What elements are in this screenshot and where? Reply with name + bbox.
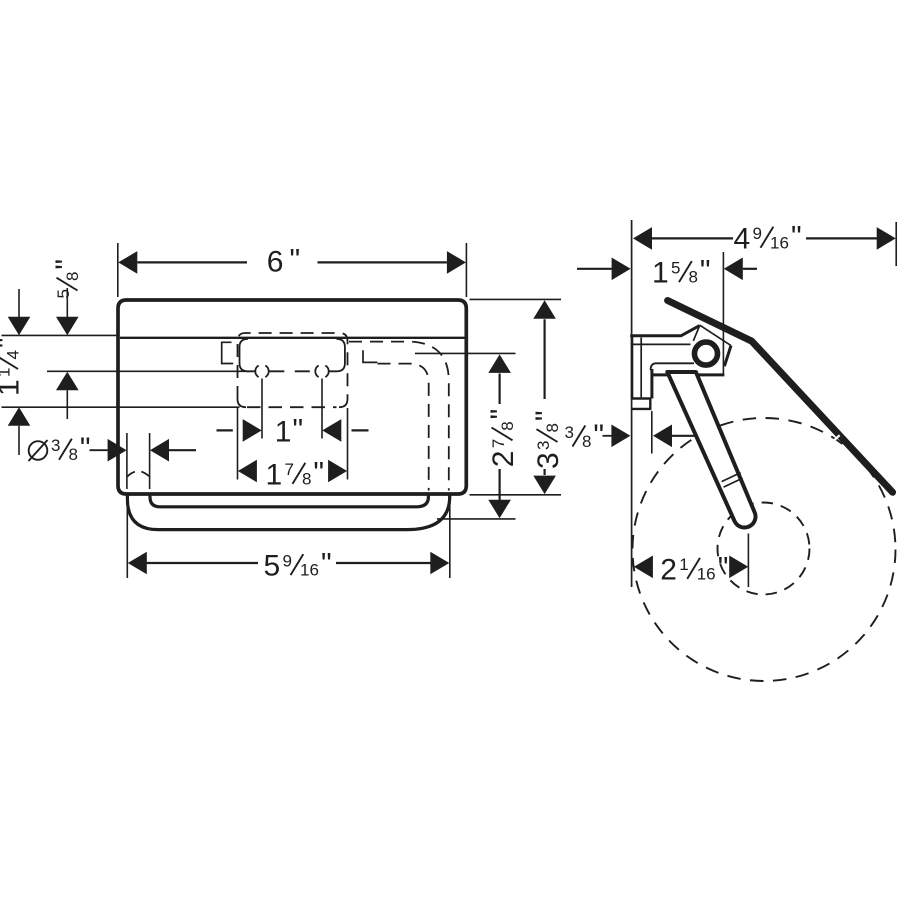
dim 2 1/16: extension line: [747, 534, 749, 588]
svg-text:7: 7: [489, 439, 508, 448]
side view: wall reference line: [631, 220, 633, 587]
svg-text:9: 9: [753, 224, 762, 243]
dim 3 3/8: line, arrows: [533, 300, 556, 319]
dim 5 9/16 inch (bar width): extension lines: [126, 497, 128, 578]
svg-text:": ": [290, 244, 301, 277]
svg-text:": ": [700, 255, 711, 288]
plate bottom hidden edge: [247, 406, 337, 408]
svg-text:6: 6: [267, 246, 284, 279]
dim 3 3/8 inch (body height): extension lines: [470, 298, 562, 300]
svg-text:1: 1: [0, 368, 13, 377]
screw hole left: [255, 366, 258, 378]
dim 3/8: extension line: [651, 411, 653, 454]
screw hole centre line: [47, 370, 250, 372]
front view: holder body outline: [118, 300, 466, 494]
dim dia 3/8: leader and arrows: [90, 449, 108, 451]
hidden centre line between holes: [269, 370, 314, 372]
wall bracket left edge: [631, 336, 634, 399]
svg-text:3: 3: [565, 423, 574, 442]
svg-text:8: 8: [582, 432, 591, 451]
screw hole right: [315, 366, 318, 378]
roll bar outer outline: [127, 493, 449, 530]
svg-text:2: 2: [487, 451, 520, 468]
hinge block left edge: [693, 325, 700, 341]
svg-text:3: 3: [534, 441, 553, 450]
dim dia 3/8 inch rod: extension lines: [126, 433, 128, 489]
svg-text:5: 5: [671, 258, 680, 277]
cover flap (open position): [668, 301, 893, 493]
plate bottom right corner: [339, 399, 348, 407]
svg-text:1: 1: [266, 458, 283, 491]
roll core (dashed circle): [718, 503, 810, 595]
dim 2 7/8: rotated label: [485, 409, 520, 468]
svg-text:8: 8: [689, 268, 698, 287]
dim 1 inch (hole spacing): extension lines: [261, 379, 263, 439]
wall bracket inner horizontal: [633, 343, 691, 345]
svg-text:8: 8: [498, 421, 517, 430]
hinge block top edge: [700, 325, 731, 345]
dim 1 1/4 inch: arrows and stems: [18, 289, 20, 317]
wall bracket inner vertical: [640, 338, 642, 398]
svg-text:3: 3: [532, 452, 565, 469]
cover hidden outline outer: [349, 342, 449, 491]
mounting plate solid outline right: [329, 339, 345, 371]
svg-text:1: 1: [275, 415, 292, 448]
roll bar inner outline: [150, 493, 428, 507]
svg-text:5: 5: [54, 289, 73, 298]
dim 1 inch: line, arrows, label: [217, 429, 233, 431]
svg-text:1: 1: [679, 555, 688, 574]
diameter symbol: [29, 441, 48, 460]
svg-text:": ": [313, 456, 324, 489]
hinge block right edge: [724, 346, 731, 367]
dim 2 7/8: line, arrows: [488, 354, 511, 373]
svg-text:4: 4: [4, 350, 23, 359]
svg-text:1: 1: [652, 257, 669, 290]
dimension reference line A (shelf top): [2, 334, 118, 336]
svg-text:": ": [485, 409, 518, 420]
rod hidden bend (dashed arc): [127, 471, 149, 476]
arm seam lines: [722, 473, 741, 482]
dim 1 7/8 inch: arrows and label: [238, 460, 257, 483]
svg-text:9: 9: [283, 551, 292, 570]
svg-text:2: 2: [660, 553, 677, 586]
cover hidden outline inner: [378, 364, 429, 491]
dimension reference line C (plate bottom): [2, 406, 240, 408]
dim 5/8 inch: rotated label: [50, 259, 83, 299]
svg-text:16: 16: [770, 233, 789, 252]
wall bracket foot: [631, 399, 650, 409]
shelf front edge line: [120, 337, 465, 339]
dim 5/8 inch: arrows and stems: [66, 288, 68, 317]
svg-text:": ": [293, 413, 304, 446]
svg-text:8: 8: [543, 423, 562, 432]
dim 1 1/4 inch: rotated label: [0, 337, 26, 396]
dim 2 7/8 inch: extension lines: [415, 352, 516, 354]
svg-text:": ": [0, 337, 24, 348]
svg-text:16: 16: [300, 561, 319, 580]
dim 5 9/16: line, arrows, label: [147, 562, 259, 564]
wall bracket top edge: [630, 326, 699, 336]
ledge-foot connector: [650, 369, 653, 399]
mounting plate solid outline left: [240, 339, 256, 371]
svg-text:5: 5: [264, 550, 281, 583]
svg-text:16: 16: [697, 564, 716, 583]
svg-text:": ": [593, 419, 604, 452]
hinge pin bracket right: [363, 350, 377, 362]
dim 1 5/8: stems and arrows: [577, 268, 612, 270]
dim 1 5/8: extension line: [722, 252, 724, 375]
svg-text:1: 1: [0, 379, 26, 396]
roll holder arm: [667, 372, 755, 528]
dim 2 1/16: arrows and label: [634, 556, 653, 579]
dim 6 inch: line and arrows: [137, 261, 247, 263]
hinge pivot ring: [695, 342, 718, 365]
ledge top edge: [656, 362, 694, 364]
plate bottom left corner: [238, 399, 247, 407]
dim 4 9/16: extension line right: [895, 222, 897, 266]
svg-text:3: 3: [51, 436, 60, 455]
svg-text:": ": [791, 220, 802, 253]
svg-text:": ": [50, 259, 83, 270]
svg-text:4: 4: [734, 222, 751, 255]
ledge bottom edge: [651, 373, 725, 376]
svg-text:": ": [530, 410, 563, 421]
svg-text:": ": [321, 548, 332, 581]
dim 3 3/8: rotated label: [530, 410, 565, 469]
cover seam notch: [832, 435, 839, 442]
svg-text:8: 8: [69, 445, 78, 464]
dim 6 inch: extension lines: [117, 243, 119, 297]
dim 3/8: leader, arrows: [603, 435, 613, 437]
svg-text:": ": [80, 432, 91, 465]
svg-text:7: 7: [285, 460, 294, 479]
svg-text:": ": [718, 551, 729, 584]
paper roll (dashed circle): [633, 418, 896, 681]
hinge pin bracket left: [222, 342, 234, 363]
ledge corner: [651, 363, 656, 370]
dim 4 9/16: line, arrows, label: [652, 237, 734, 239]
svg-text:8: 8: [302, 469, 311, 488]
mounting plate hidden (dashed) outline: [238, 333, 348, 399]
svg-text:8: 8: [63, 272, 82, 281]
dim 1 7/8 inch (plate width): extension lines: [237, 408, 239, 480]
